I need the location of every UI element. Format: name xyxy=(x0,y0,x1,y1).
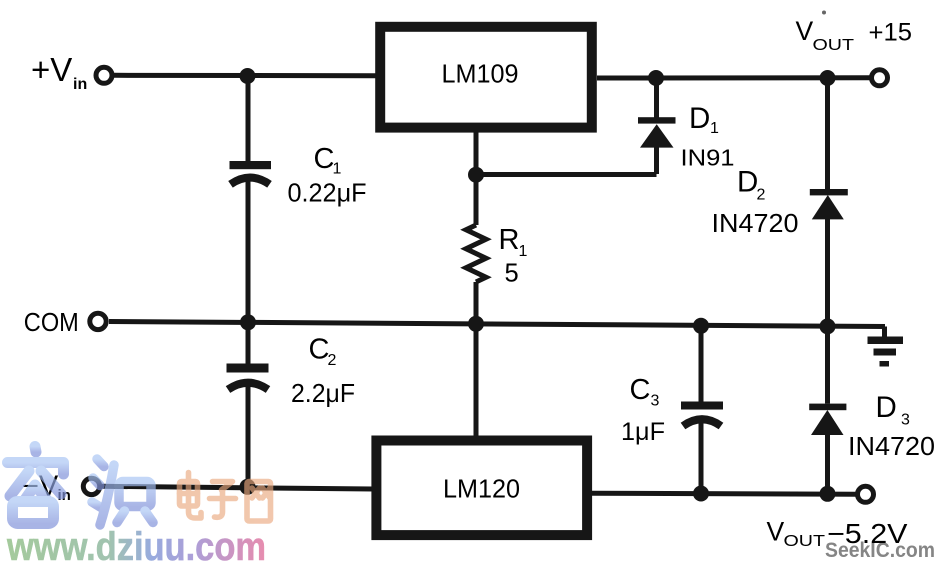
svg-text:1μF: 1μF xyxy=(621,418,665,446)
svg-text:www.dziuu.com: www.dziuu.com xyxy=(6,525,266,566)
svg-text:1: 1 xyxy=(333,161,342,178)
svg-text:2.2μF: 2.2μF xyxy=(291,378,355,408)
svg-text:LM109: LM109 xyxy=(442,59,519,89)
svg-text:+15: +15 xyxy=(869,19,913,47)
svg-text:C: C xyxy=(309,334,330,366)
svg-text:V: V xyxy=(767,517,785,547)
svg-text:IN4720: IN4720 xyxy=(712,208,799,238)
svg-text:IN4720: IN4720 xyxy=(848,431,935,461)
svg-text:0.22μF: 0.22μF xyxy=(288,178,367,208)
svg-text:+V: +V xyxy=(31,51,72,88)
svg-text:IN91: IN91 xyxy=(681,145,735,171)
svg-text:C: C xyxy=(314,143,335,175)
svg-text:1: 1 xyxy=(519,243,528,260)
svg-text:D: D xyxy=(689,102,710,135)
svg-text:COM: COM xyxy=(24,309,79,337)
svg-text:1: 1 xyxy=(710,120,719,137)
svg-text:D: D xyxy=(737,166,758,199)
svg-text:−5.2V: −5.2V xyxy=(827,518,908,549)
svg-text:3: 3 xyxy=(901,412,910,429)
svg-text:5: 5 xyxy=(505,260,519,288)
svg-text:C: C xyxy=(630,374,651,406)
svg-text:OUT: OUT xyxy=(784,533,826,550)
svg-text:3: 3 xyxy=(651,393,660,410)
svg-text:2: 2 xyxy=(328,352,337,369)
svg-text:LM120: LM120 xyxy=(443,474,520,504)
svg-text:V: V xyxy=(796,16,814,46)
svg-text:in: in xyxy=(73,76,87,93)
svg-text:2: 2 xyxy=(757,187,766,204)
svg-text:OUT: OUT xyxy=(813,37,855,54)
svg-text:D: D xyxy=(876,391,897,424)
svg-text:R: R xyxy=(499,224,520,256)
